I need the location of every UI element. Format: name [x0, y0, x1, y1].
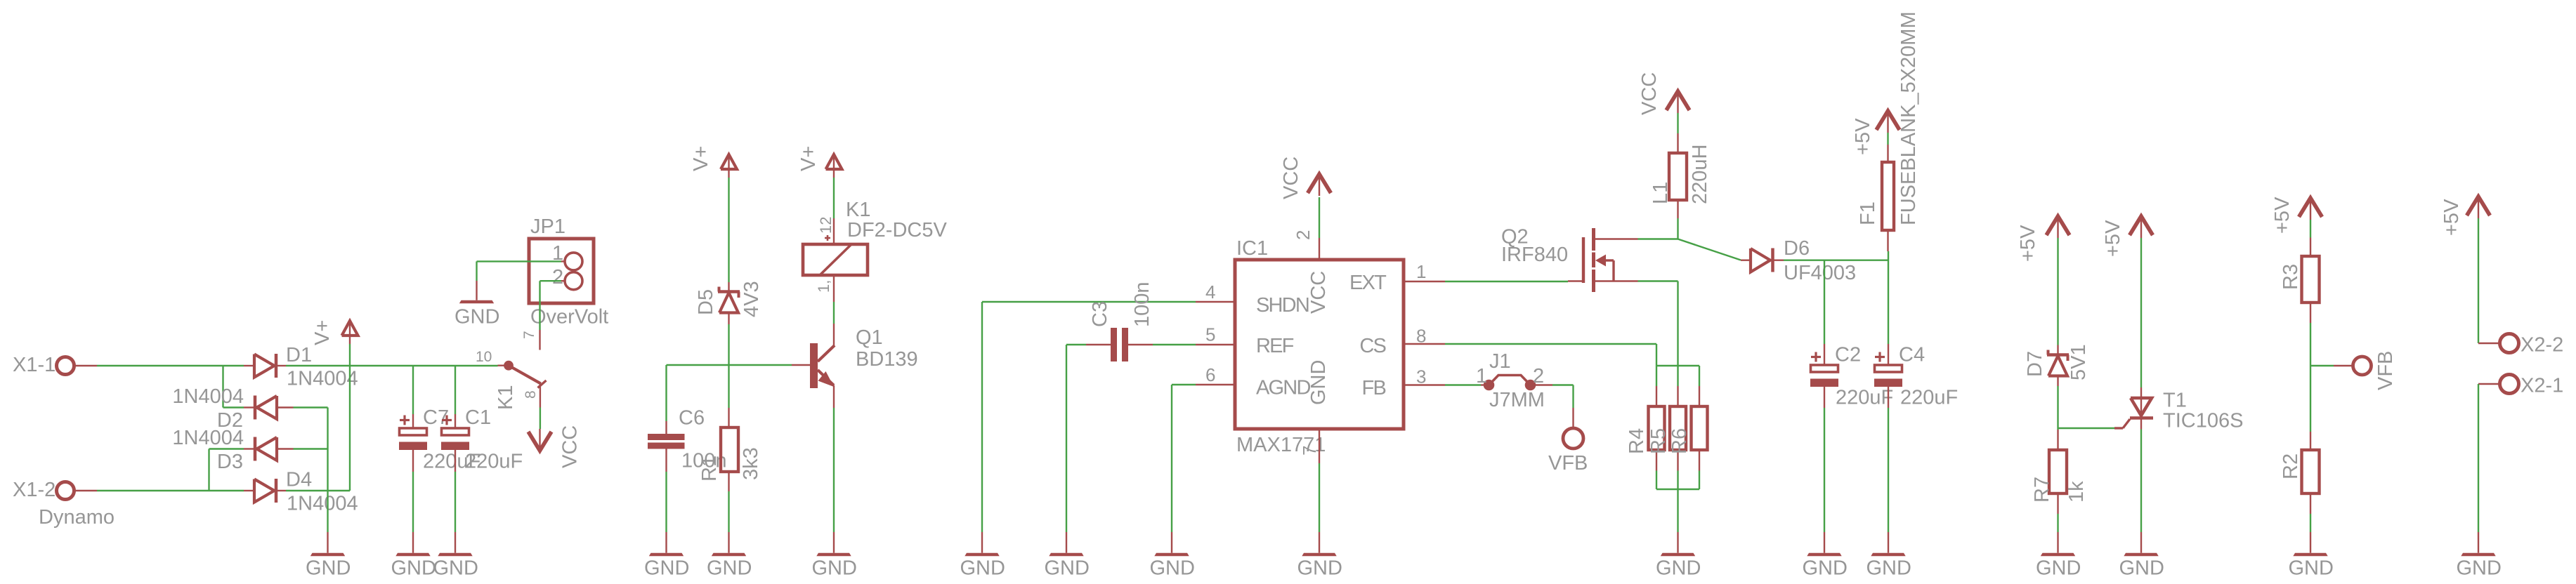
svg-text:GND: GND — [1866, 557, 1911, 580]
resistor R7 — [2031, 430, 2088, 514]
wire — [286, 365, 498, 366]
wire — [1824, 260, 1825, 344]
svg-text:GND: GND — [1297, 557, 1342, 580]
resistor R2 — [2280, 432, 2320, 514]
wire — [97, 490, 244, 491]
svg-text:GND: GND — [2457, 557, 2502, 580]
wire — [1887, 133, 1888, 145]
supply V+ — [690, 146, 737, 178]
ground — [1297, 532, 1342, 580]
svg-text:1: 1 — [1476, 365, 1487, 387]
svg-text:+5V: +5V — [2102, 220, 2124, 257]
svg-text:L1: L1 — [1649, 182, 1672, 204]
svg-text:C4: C4 — [1899, 344, 1925, 366]
svg-text:2: 2 — [1533, 365, 1544, 387]
svg-text:220uF: 220uF — [465, 451, 523, 473]
svg-text:C7: C7 — [423, 406, 449, 429]
wire — [2478, 218, 2479, 343]
svg-text:IC1: IC1 — [1236, 237, 1268, 260]
svg-text:GND: GND — [433, 557, 478, 580]
wire — [2478, 384, 2479, 532]
svg-text:GND: GND — [1150, 557, 1195, 580]
wire — [1638, 238, 1678, 239]
ground — [2457, 532, 2502, 580]
svg-text:R7: R7 — [2031, 477, 2053, 503]
pin 5 REF — [1196, 324, 1294, 358]
ground — [707, 532, 752, 580]
op-amp U1 (IC1 MAX1771 box) — [1235, 237, 1404, 456]
zener diode D7 — [2024, 344, 2090, 386]
svg-text:UF4003: UF4003 — [1784, 262, 1856, 284]
svg-text:R4: R4 — [1626, 428, 1648, 454]
diode D3 — [172, 427, 293, 473]
wire — [665, 365, 667, 421]
wire — [2058, 427, 2115, 429]
wire — [349, 344, 351, 491]
wire — [1656, 365, 1699, 366]
svg-text:VCC: VCC — [1307, 271, 1330, 314]
wire — [2310, 220, 2311, 238]
wire — [833, 302, 835, 324]
svg-text:Dynamo: Dynamo — [39, 506, 115, 529]
svg-text:V+: V+ — [797, 146, 820, 171]
wire — [2140, 430, 2142, 533]
svg-text:D7: D7 — [2024, 351, 2046, 377]
svg-text:10: 10 — [476, 349, 492, 365]
capacitor C7 — [399, 406, 480, 473]
wire — [1445, 384, 1481, 385]
svg-text:1N4004: 1N4004 — [172, 427, 244, 449]
wire — [1656, 471, 1699, 490]
svg-text:V+: V+ — [690, 146, 712, 171]
ground — [1866, 532, 1911, 580]
svg-text:D6: D6 — [1784, 237, 1810, 260]
svg-text:FUSEBLANK_5X20MM: FUSEBLANK_5X20MM — [1897, 11, 1920, 225]
wire — [455, 472, 456, 532]
svg-text:F1: F1 — [1857, 201, 1879, 225]
pin 6 AGND — [1196, 364, 1310, 399]
svg-text:SHDN: SHDN — [1256, 294, 1309, 317]
ground — [1803, 532, 1848, 580]
svg-text:GND: GND — [960, 557, 1005, 580]
supply +5V — [2440, 197, 2490, 236]
wire — [97, 365, 244, 366]
svg-text:VCC: VCC — [1638, 72, 1661, 115]
svg-text:C1: C1 — [465, 406, 491, 429]
ground — [1045, 532, 1090, 580]
supply V+ — [311, 320, 358, 345]
wire — [1445, 344, 1656, 366]
svg-text:7: 7 — [521, 331, 537, 339]
svg-text:C3: C3 — [1089, 301, 1111, 327]
wire — [540, 408, 541, 430]
wire — [1552, 385, 1574, 409]
wire — [294, 406, 328, 408]
svg-text:+5V: +5V — [2440, 199, 2463, 236]
wire — [1699, 366, 1700, 386]
svg-text:220uH: 220uH — [1689, 145, 1711, 204]
svg-text:GND: GND — [391, 557, 436, 580]
svg-text:GND: GND — [1307, 360, 1330, 405]
svg-text:CS: CS — [1359, 335, 1386, 357]
svg-text:OverVolt: OverVolt — [530, 306, 608, 328]
fuse F1 — [1857, 11, 1920, 251]
supply VCC — [1638, 72, 1689, 115]
wire — [294, 448, 328, 449]
wire — [1153, 344, 1196, 345]
wire — [1677, 218, 1678, 239]
svg-text:+5V: +5V — [1852, 118, 1874, 155]
svg-text:1N4004: 1N4004 — [287, 493, 358, 515]
resistor R3 — [2280, 238, 2320, 324]
wire — [728, 365, 729, 408]
jumper JP1 — [529, 215, 608, 328]
pin 1 EXT — [1349, 261, 1445, 294]
svg-text:J7MM: J7MM — [1489, 389, 1545, 411]
svg-text:GND: GND — [2036, 557, 2081, 580]
switch K1 pin 8 — [523, 384, 540, 408]
svg-text:R5: R5 — [1647, 428, 1670, 454]
svg-text:J1: J1 — [1489, 350, 1511, 373]
svg-text:+5V: +5V — [2271, 197, 2294, 234]
svg-text:1: 1 — [1416, 261, 1426, 282]
wire — [1319, 463, 1320, 532]
wire — [1638, 281, 1678, 387]
wire — [1066, 345, 1086, 532]
svg-text:X2-1: X2-1 — [2521, 375, 2563, 397]
svg-text:T1: T1 — [2163, 390, 2187, 412]
node VFB — [1548, 408, 1588, 474]
svg-text:D4: D4 — [286, 469, 312, 491]
supply +5V — [2017, 216, 2070, 262]
transistor Q2 — [1501, 226, 1638, 293]
svg-text:GND: GND — [2119, 557, 2164, 580]
zener diode D5 — [695, 281, 763, 324]
ground — [1656, 532, 1701, 580]
relay coil K1 — [803, 199, 947, 302]
svg-text:R6: R6 — [1668, 428, 1691, 454]
wire — [728, 324, 729, 365]
wire — [1656, 366, 1657, 386]
svg-text:12: 12 — [817, 217, 835, 234]
svg-text:2: 2 — [552, 266, 563, 288]
svg-text:+5V: +5V — [2017, 225, 2039, 262]
wire — [667, 364, 792, 366]
wire — [412, 472, 414, 532]
resistor R5 — [1647, 386, 1686, 471]
wire — [982, 302, 1196, 532]
wire — [2140, 238, 2142, 387]
svg-text:DF2-DC5V: DF2-DC5V — [847, 219, 947, 241]
diode D2 — [172, 385, 293, 432]
jumper J1 — [1476, 350, 1552, 411]
wire — [1784, 260, 1888, 261]
svg-text:GND: GND — [306, 557, 351, 580]
wire — [1824, 408, 1825, 532]
resistor R4 — [1626, 386, 1665, 471]
supply +5V — [1852, 111, 1900, 155]
wire — [2057, 514, 2058, 532]
svg-text:6: 6 — [1205, 364, 1215, 385]
svg-text:D3: D3 — [217, 451, 243, 473]
svg-text:VFB: VFB — [2374, 351, 2397, 390]
ground — [455, 261, 499, 328]
node VFB — [2334, 351, 2397, 390]
wire — [1888, 251, 1889, 344]
svg-text:K1: K1 — [846, 199, 870, 221]
wire — [1888, 408, 1889, 532]
svg-text:7: 7 — [1299, 446, 1320, 456]
svg-text:1k: 1k — [2065, 481, 2088, 503]
ground — [2119, 532, 2164, 580]
wire — [455, 366, 456, 414]
svg-text:Q1: Q1 — [856, 326, 883, 349]
wire — [209, 449, 244, 491]
svg-text:GND: GND — [455, 306, 499, 328]
svg-text:K1: K1 — [495, 385, 517, 410]
pin 4 SHDN — [1196, 281, 1309, 317]
wire — [2310, 365, 2334, 366]
wire — [2057, 386, 2058, 428]
svg-text:GND: GND — [707, 557, 752, 580]
connector pin X1-1 — [13, 354, 97, 376]
svg-text:X1-1: X1-1 — [13, 354, 55, 376]
svg-text:C2: C2 — [1835, 344, 1861, 366]
diode D6 — [1741, 237, 1856, 284]
svg-text:1,: 1, — [815, 280, 832, 293]
wire — [1445, 281, 1568, 282]
ground — [812, 532, 857, 580]
capacitor C6 — [648, 407, 727, 472]
svg-text:VCC: VCC — [1280, 157, 1302, 199]
pin 3 FB — [1362, 366, 1445, 400]
svg-text:GND: GND — [2289, 557, 2334, 580]
ground — [2036, 532, 2081, 580]
ground — [960, 532, 1005, 580]
svg-text:JP1: JP1 — [530, 215, 565, 238]
diode D1 — [244, 344, 358, 390]
switch K1 pin 10 — [476, 349, 512, 369]
svg-text:3: 3 — [1416, 366, 1426, 387]
ground — [306, 532, 351, 580]
svg-text:220uF: 220uF — [1900, 387, 1958, 409]
pin 8 CS — [1359, 326, 1445, 358]
wire — [728, 178, 729, 282]
wire — [2310, 323, 2311, 366]
svg-text:D5: D5 — [695, 289, 717, 315]
svg-text:R2: R2 — [2280, 453, 2302, 479]
svg-text:BD139: BD139 — [856, 348, 918, 371]
wire — [1172, 385, 1196, 532]
svg-text:TIC106S: TIC106S — [2163, 410, 2243, 432]
connector pin X2-1 — [2478, 375, 2563, 397]
resistor R6 — [1668, 386, 1708, 471]
connector pin X1-2 — [13, 479, 115, 529]
wire — [728, 491, 729, 532]
svg-text:D1: D1 — [286, 344, 312, 366]
svg-text:4: 4 — [1205, 281, 1215, 303]
svg-text:EXT: EXT — [1349, 272, 1387, 294]
switch K1 pin 7 — [521, 330, 540, 350]
wire — [2310, 366, 2311, 432]
wire — [412, 366, 414, 414]
supply VCC — [528, 425, 582, 468]
svg-text:X2-2: X2-2 — [2521, 334, 2563, 357]
svg-text:4V3: 4V3 — [740, 281, 763, 317]
svg-text:2: 2 — [1293, 230, 1314, 240]
resistor R1 — [698, 408, 762, 491]
wire — [540, 281, 562, 330]
wire — [286, 490, 350, 491]
svg-text:C6: C6 — [679, 407, 705, 430]
wire — [2057, 428, 2058, 430]
diode D4 — [244, 469, 358, 515]
svg-text:FB: FB — [1362, 377, 1386, 399]
capacitor C2 — [1810, 344, 1893, 409]
supply +5V — [2271, 197, 2322, 234]
supply VCC — [1280, 157, 1331, 199]
svg-text:5: 5 — [1205, 324, 1215, 345]
capacitor C4 — [1874, 344, 1958, 409]
thyristor T1 — [2114, 387, 2243, 432]
connector pin X2-2 — [2478, 334, 2563, 357]
pin 7 GND — [1299, 360, 1330, 463]
ground — [433, 532, 478, 580]
wire — [223, 366, 244, 408]
supply +5V — [2102, 216, 2153, 257]
ground — [2289, 532, 2334, 580]
svg-text:1N4004: 1N4004 — [172, 385, 244, 408]
wire — [665, 472, 667, 532]
svg-text:5V1: 5V1 — [2067, 344, 2090, 380]
ground — [391, 532, 436, 580]
svg-text:R1: R1 — [698, 456, 721, 482]
wire — [1678, 239, 1741, 260]
svg-text:GND: GND — [812, 557, 857, 580]
svg-text:X1-2: X1-2 — [13, 479, 55, 501]
switch K1 lever — [495, 366, 547, 410]
svg-text:8: 8 — [523, 390, 539, 399]
svg-text:GND: GND — [1656, 557, 1701, 580]
wire — [327, 408, 328, 533]
pin 2 VCC — [1293, 230, 1330, 314]
ground — [1150, 532, 1195, 580]
wire — [2057, 238, 2058, 345]
wire — [1319, 197, 1320, 238]
svg-text:VFB: VFB — [1548, 452, 1588, 474]
capacitor C3 — [1086, 281, 1153, 361]
wire — [477, 260, 562, 262]
svg-text:GND: GND — [644, 557, 689, 580]
supply V+ — [797, 146, 842, 178]
svg-text:REF: REF — [1256, 335, 1294, 357]
transistor Q1 — [792, 324, 918, 408]
ground — [644, 532, 689, 580]
svg-text:8: 8 — [1416, 326, 1426, 347]
svg-text:220uF: 220uF — [1836, 387, 1893, 409]
svg-text:R3: R3 — [2280, 264, 2302, 290]
inductor L1 — [1649, 133, 1711, 218]
svg-text:AGND: AGND — [1256, 377, 1310, 399]
wire — [1677, 113, 1678, 133]
wire — [1677, 471, 1678, 533]
svg-text:100n: 100n — [1131, 281, 1153, 327]
svg-text:V+: V+ — [311, 320, 334, 345]
svg-text:GND: GND — [1803, 557, 1848, 580]
svg-text:VCC: VCC — [559, 425, 582, 468]
wire — [833, 408, 835, 532]
svg-text:IRF840: IRF840 — [1501, 244, 1568, 266]
svg-text:GND: GND — [1045, 557, 1090, 580]
wire — [833, 178, 835, 218]
capacitor C1 — [441, 406, 523, 473]
svg-text:1N4004: 1N4004 — [287, 368, 358, 390]
svg-text:3k3: 3k3 — [740, 447, 762, 480]
wire — [2310, 514, 2311, 532]
